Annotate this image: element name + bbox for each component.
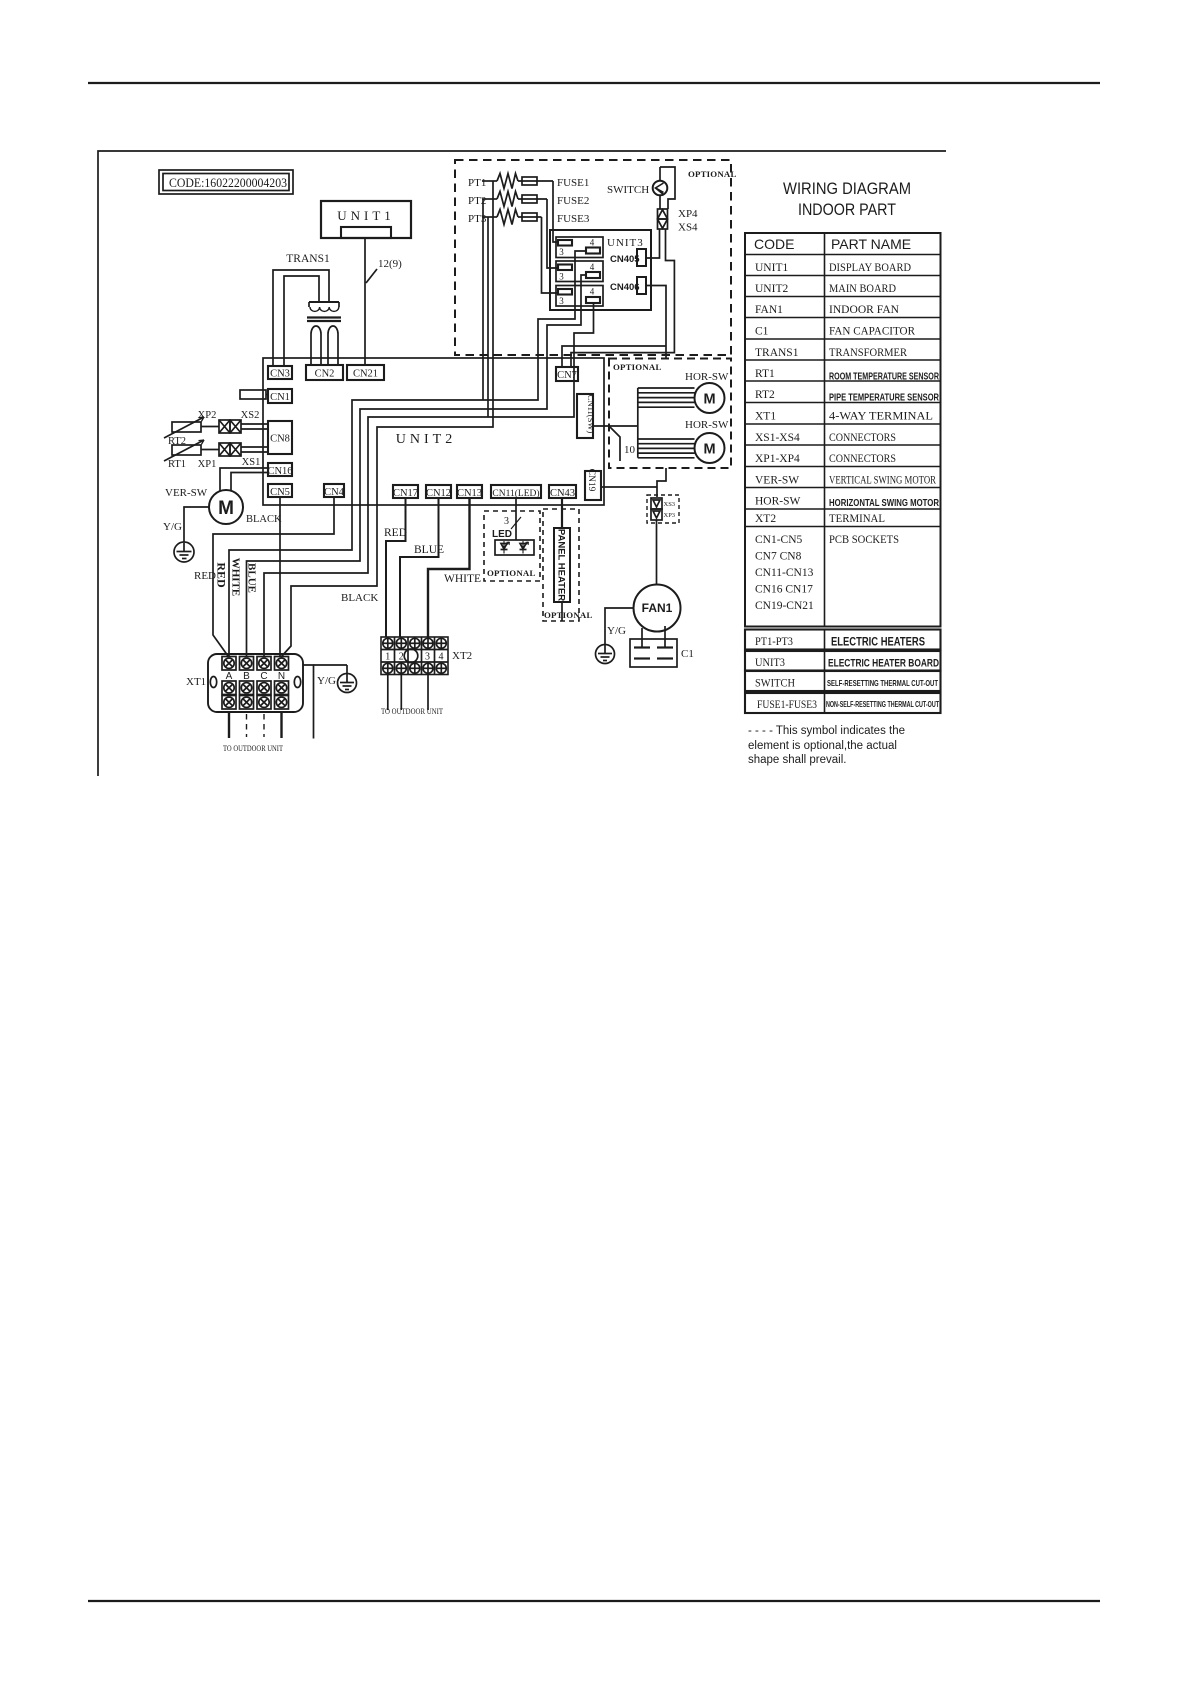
svg-text:OPTIONAL: OPTIONAL <box>688 169 737 179</box>
svg-text:UNIT2: UNIT2 <box>755 283 788 295</box>
svg-text:N: N <box>278 671 285 682</box>
svg-text:Y/G: Y/G <box>163 521 182 533</box>
svg-text:HORIZONTAL SWING MOTOR: HORIZONTAL SWING MOTOR <box>829 498 940 509</box>
svg-text:FAN1: FAN1 <box>755 304 783 316</box>
svg-text:Y/G: Y/G <box>607 625 626 637</box>
svg-text:SWITCH: SWITCH <box>755 676 795 690</box>
svg-text:C1: C1 <box>755 326 769 338</box>
svg-text:CN17: CN17 <box>393 488 418 499</box>
svg-text:WIRING DIAGRAM: WIRING DIAGRAM <box>783 180 911 198</box>
svg-text:CN11(LED): CN11(LED) <box>492 488 539 499</box>
svg-text:CN16 CN17: CN16 CN17 <box>755 584 813 596</box>
svg-text:XT2: XT2 <box>452 650 472 662</box>
svg-text:SWITCH: SWITCH <box>607 184 649 196</box>
svg-text:RED: RED <box>384 527 407 539</box>
svg-text:PCB SOCKETS: PCB SOCKETS <box>829 534 899 546</box>
svg-text:OPTIONAL: OPTIONAL <box>487 568 536 578</box>
svg-text:OPTIONAL: OPTIONAL <box>544 610 593 620</box>
svg-text:WHITE: WHITE <box>444 573 481 585</box>
svg-text:CN5: CN5 <box>270 487 290 498</box>
svg-text:CODE:16022200004203: CODE:16022200004203 <box>169 175 287 190</box>
svg-text:4: 4 <box>590 238 595 248</box>
svg-text:TRANS1: TRANS1 <box>755 347 799 359</box>
svg-text:HOR-SW: HOR-SW <box>685 371 729 383</box>
svg-text:ROOM TEMPERATURE SENSOR: ROOM TEMPERATURE SENSOR <box>829 372 940 383</box>
svg-text:NON-SELF-RESETTING THERMAL CUT: NON-SELF-RESETTING THERMAL CUT-OUT <box>826 700 939 709</box>
svg-text:3: 3 <box>425 652 430 663</box>
svg-text:TO OUTDOOR UNIT: TO OUTDOOR UNIT <box>223 744 283 753</box>
svg-text:SELF-RESETTING THERMAL CUT-OUT: SELF-RESETTING THERMAL CUT-OUT <box>827 678 939 688</box>
svg-text:PART NAME: PART NAME <box>831 236 911 252</box>
svg-text:XS2: XS2 <box>241 410 260 421</box>
svg-text:ELECTRIC HEATER BOARD: ELECTRIC HEATER BOARD <box>828 658 939 670</box>
svg-text:CN19: CN19 <box>586 469 596 492</box>
svg-text:INDOOR PART: INDOOR PART <box>798 201 896 219</box>
svg-text:M: M <box>218 498 234 519</box>
svg-text:RT1: RT1 <box>168 459 186 470</box>
svg-text:OPTIONAL: OPTIONAL <box>613 362 662 372</box>
svg-text:BLACK: BLACK <box>341 592 378 604</box>
svg-text:TERMINAL: TERMINAL <box>829 513 885 525</box>
svg-text:B: B <box>243 671 250 682</box>
svg-text:XP1: XP1 <box>198 459 217 470</box>
svg-text:3: 3 <box>559 272 564 282</box>
svg-text:PT2: PT2 <box>468 195 486 207</box>
svg-text:XP1-XP4: XP1-XP4 <box>755 453 800 465</box>
svg-text:element is optional,the actual: element is optional,the actual <box>748 740 897 752</box>
svg-text:RED: RED <box>215 562 229 588</box>
svg-text:VERTICAL SWING MOTOR: VERTICAL SWING MOTOR <box>829 475 936 487</box>
svg-text:3: 3 <box>559 247 564 257</box>
svg-text:PANEL HEATER: PANEL HEATER <box>556 529 567 601</box>
svg-text:M: M <box>703 442 715 458</box>
svg-text:XP4: XP4 <box>678 208 698 220</box>
svg-text:4-WAY TERMINAL: 4-WAY TERMINAL <box>829 411 933 423</box>
svg-text:XT2: XT2 <box>755 513 776 525</box>
svg-text:CN8: CN8 <box>270 434 290 445</box>
svg-text:FAN CAPACITOR: FAN CAPACITOR <box>829 326 915 338</box>
svg-text:10: 10 <box>624 444 636 456</box>
svg-text:4: 4 <box>590 262 595 272</box>
svg-text:RT1: RT1 <box>755 368 775 380</box>
svg-text:BLACK: BLACK <box>246 514 282 525</box>
svg-text:M: M <box>703 392 715 408</box>
svg-text:XS1: XS1 <box>242 457 261 468</box>
svg-text:CN2: CN2 <box>315 369 335 380</box>
svg-text:CODE: CODE <box>754 236 794 252</box>
svg-text:RED: RED <box>194 570 216 582</box>
svg-text:CN1: CN1 <box>270 392 290 403</box>
svg-text:BLUE: BLUE <box>414 544 444 556</box>
svg-text:VER-SW: VER-SW <box>165 487 208 499</box>
svg-text:CN19-CN21: CN19-CN21 <box>755 600 814 612</box>
svg-text:- - - - This symbol indicates: - - - - This symbol indicates the <box>748 725 905 737</box>
svg-text:CN11-CN13: CN11-CN13 <box>755 567 814 579</box>
svg-text:CN21: CN21 <box>353 369 378 380</box>
svg-text:HOR-SW: HOR-SW <box>685 419 729 431</box>
svg-text:CN16: CN16 <box>267 466 292 477</box>
svg-text:UNIT1: UNIT1 <box>755 262 788 274</box>
svg-text:ELECTRIC HEATERS: ELECTRIC HEATERS <box>831 635 925 649</box>
svg-text:PIPE TEMPERATURE SENSOR: PIPE TEMPERATURE SENSOR <box>829 393 940 404</box>
svg-text:3: 3 <box>504 516 509 527</box>
svg-text:XT1: XT1 <box>186 676 206 688</box>
svg-text:UNIT2: UNIT2 <box>396 432 456 447</box>
svg-text:CN13: CN13 <box>457 488 482 499</box>
svg-text:UNIT1: UNIT1 <box>337 208 395 223</box>
svg-text:XS4: XS4 <box>678 222 698 234</box>
svg-text:CN7 CN8: CN7 CN8 <box>755 551 802 563</box>
svg-text:CN4: CN4 <box>324 487 345 498</box>
svg-text:LED: LED <box>492 529 512 540</box>
svg-text:XS3: XS3 <box>664 501 676 508</box>
svg-text:Y/G: Y/G <box>317 675 336 687</box>
svg-text:C1: C1 <box>681 648 694 660</box>
svg-text:XP2: XP2 <box>198 410 217 421</box>
svg-text:12(9): 12(9) <box>378 258 402 270</box>
svg-text:TRANS1: TRANS1 <box>286 253 330 265</box>
svg-text:4: 4 <box>439 652 444 663</box>
svg-text:XS1-XS4: XS1-XS4 <box>755 432 800 444</box>
svg-text:RT2: RT2 <box>755 389 775 401</box>
svg-text:UNIT3: UNIT3 <box>607 237 644 249</box>
svg-text:WHITE: WHITE <box>230 558 242 597</box>
svg-text:PT1-PT3: PT1-PT3 <box>755 634 793 648</box>
svg-text:XT1: XT1 <box>755 411 776 423</box>
svg-text:1: 1 <box>385 652 390 663</box>
svg-text:MAIN BOARD: MAIN BOARD <box>829 283 896 295</box>
svg-text:PT1: PT1 <box>468 177 486 189</box>
svg-text:FUSE2: FUSE2 <box>557 195 589 207</box>
svg-text:CN43: CN43 <box>550 488 575 499</box>
svg-text:CONNECTORS: CONNECTORS <box>829 432 896 444</box>
svg-text:FUSE1-FUSE3: FUSE1-FUSE3 <box>757 697 817 711</box>
svg-text:XP3: XP3 <box>664 512 676 519</box>
svg-text:CN406: CN406 <box>610 282 640 293</box>
svg-text:FAN1: FAN1 <box>642 601 673 615</box>
svg-text:CN12: CN12 <box>426 488 451 499</box>
svg-text:C: C <box>260 671 267 682</box>
svg-text:TRANSFORMER: TRANSFORMER <box>829 347 907 359</box>
svg-text:CONNECTORS: CONNECTORS <box>829 453 896 465</box>
svg-text:HOR-SW: HOR-SW <box>755 496 801 508</box>
svg-text:INDOOR FAN: INDOOR FAN <box>829 304 900 316</box>
svg-text:FUSE3: FUSE3 <box>557 213 590 225</box>
svg-text:TO OUTDOOR UNIT: TO OUTDOOR UNIT <box>381 707 443 716</box>
svg-text:CN11(SW): CN11(SW) <box>586 395 596 434</box>
svg-text:3: 3 <box>559 296 564 306</box>
svg-text:DISPLAY BOARD: DISPLAY BOARD <box>829 262 911 274</box>
svg-text:CN405: CN405 <box>610 254 640 265</box>
svg-text:CN7: CN7 <box>557 370 577 381</box>
svg-text:2: 2 <box>399 652 404 663</box>
svg-text:A: A <box>226 671 233 682</box>
svg-text:RT2: RT2 <box>168 436 186 447</box>
svg-text:4: 4 <box>590 287 595 297</box>
svg-text:FUSE1: FUSE1 <box>557 177 589 189</box>
svg-text:CN1-CN5: CN1-CN5 <box>755 534 803 546</box>
svg-text:VER-SW: VER-SW <box>755 475 799 487</box>
svg-text:UNIT3: UNIT3 <box>755 655 785 669</box>
svg-text:BLUE: BLUE <box>246 563 258 593</box>
svg-text:CN3: CN3 <box>270 369 290 380</box>
svg-text:shape shall prevail.: shape shall prevail. <box>748 754 846 766</box>
svg-text:PT3: PT3 <box>468 213 487 225</box>
